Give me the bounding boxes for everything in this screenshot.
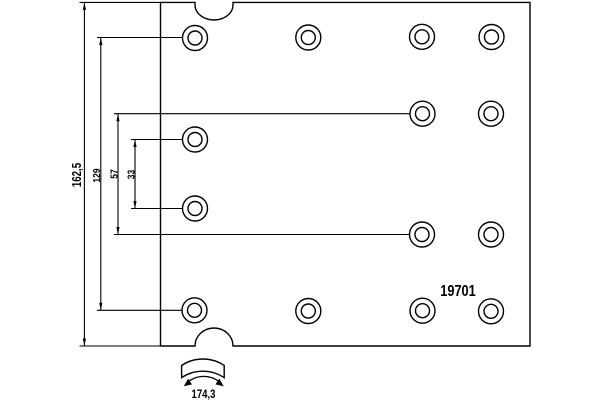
arrowhead arc right — [216, 379, 224, 387]
svg-text:174,3: 174,3 — [191, 388, 215, 400]
extension line hole L1 — [131, 139, 183, 141]
hole C4 outer — [479, 222, 504, 247]
arrowhead 129 top — [99, 38, 102, 46]
hole D1 inner — [188, 303, 202, 317]
hole L1 inner — [188, 133, 202, 147]
hole L1 outer — [183, 127, 208, 152]
svg-text:57: 57 — [109, 169, 120, 178]
dimension line 57 — [117, 114, 119, 235]
arrowhead 33 bottom — [133, 201, 136, 209]
hole A2 outer — [296, 25, 321, 50]
hole L2 inner — [188, 202, 202, 216]
arrowhead 162,5 bottom — [83, 339, 86, 347]
hole B4 inner — [484, 107, 498, 121]
hole A2 inner — [301, 31, 315, 45]
extension line row B — [114, 113, 411, 115]
hole B4 outer — [479, 101, 504, 126]
svg-text:19701: 19701 — [440, 283, 476, 301]
hole L2 outer — [183, 196, 208, 221]
extension line row D — [97, 309, 183, 311]
hole A3 inner — [415, 30, 429, 44]
arrowhead 129 bottom — [99, 303, 102, 311]
arrowhead 162,5 top — [83, 2, 86, 9]
hole C4 inner — [484, 228, 498, 242]
hole A4 inner — [485, 30, 499, 44]
svg-text:33: 33 — [126, 170, 137, 179]
hole C3 outer — [410, 222, 435, 247]
extension line bottom edge — [80, 345, 162, 347]
hole D4 outer — [479, 299, 504, 324]
dimension line 33 — [134, 140, 136, 209]
hole A1 outer — [183, 26, 208, 51]
extension line hole L2 — [131, 208, 183, 210]
arrowhead 57 bottom — [116, 227, 119, 235]
lining cross-section band — [182, 359, 225, 378]
arrowhead 33 top — [133, 140, 136, 148]
hole D1 outer — [182, 298, 207, 323]
arc-length arrow — [186, 376, 222, 384]
extension line row C — [114, 234, 410, 236]
dimension line 129 — [100, 38, 102, 311]
hole D3 inner — [416, 304, 430, 318]
hole A1 inner — [188, 31, 202, 45]
hole D2 outer — [296, 299, 321, 324]
hole D3 outer — [410, 298, 435, 323]
dimension line 162,5 — [83, 2, 85, 346]
arrowhead 57 top — [116, 114, 119, 122]
hole A4 outer — [479, 25, 504, 50]
hole C3 inner — [415, 228, 429, 242]
extension line row A — [97, 37, 183, 39]
hole B3 inner — [416, 107, 430, 121]
svg-text:162,5: 162,5 — [71, 163, 84, 187]
hole B3 outer — [410, 101, 435, 126]
extension line top edge — [80, 1, 161, 3]
arrowhead arc left — [184, 379, 192, 387]
hole D4 inner — [484, 304, 498, 318]
part outline — [161, 2, 531, 346]
svg-text:129: 129 — [92, 168, 103, 182]
hole A3 outer — [410, 24, 435, 49]
hole D2 inner — [301, 304, 315, 318]
